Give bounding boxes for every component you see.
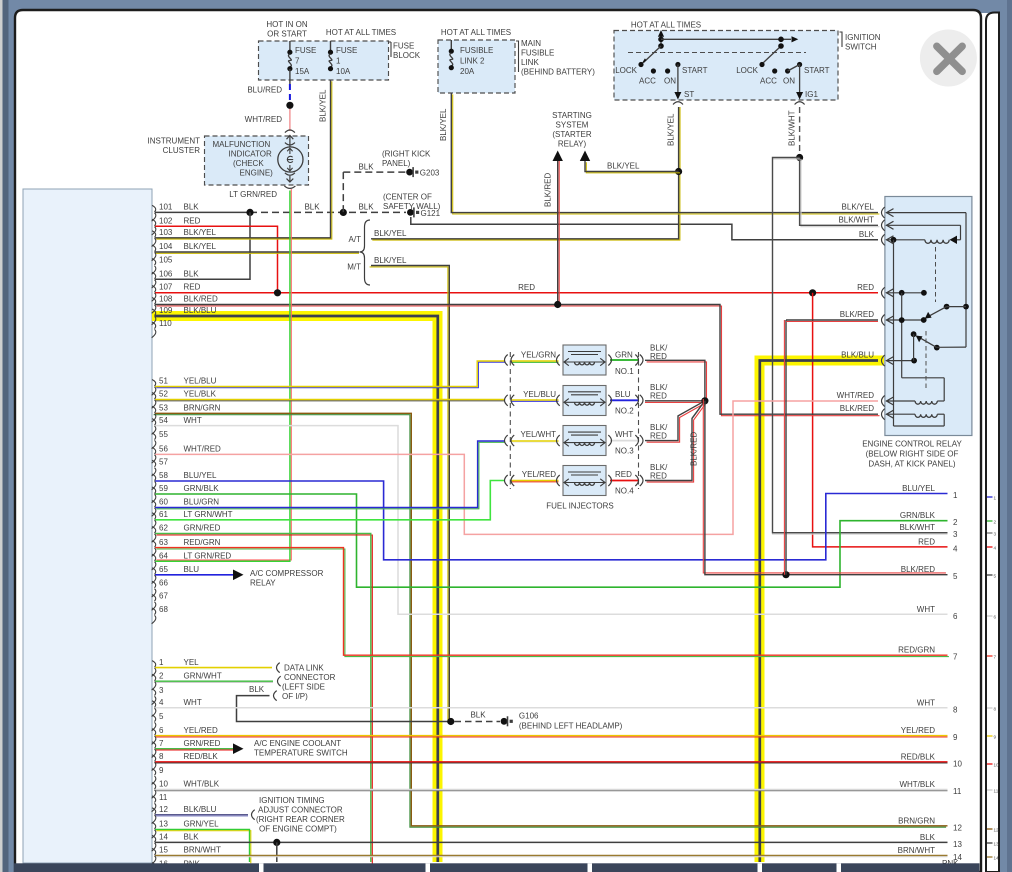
yellow highlight over BLK/BLU wire row 109: [152, 316, 438, 862]
svg-text:62: 62: [159, 524, 168, 533]
svg-text:9: 9: [159, 766, 164, 775]
svg-text:4: 4: [953, 544, 958, 553]
svg-text:BLK: BLK: [184, 203, 200, 212]
svg-text:(CENTER OF: (CENTER OF: [383, 193, 432, 202]
svg-text:BLU: BLU: [184, 565, 200, 574]
svg-text:12: 12: [994, 827, 1000, 832]
svg-text:NO.2: NO.2: [615, 406, 634, 415]
svg-text:LOCK: LOCK: [736, 66, 758, 75]
node junction BLK/WHT IG1: [796, 154, 803, 161]
svg-text:BLK: BLK: [358, 203, 374, 212]
bottom band gap at 836.5: [837, 863, 842, 872]
bottom band gap at 757.5: [758, 863, 763, 872]
svg-text:STARTING: STARTING: [552, 111, 592, 120]
fusible link 2 20A: [450, 40, 452, 50]
wire 64 LT GRN/RED stub: [155, 560, 290, 562]
svg-text:14: 14: [159, 833, 168, 842]
dashed connector line fuel injectors right: [638, 352, 640, 489]
node junction BLK dashed/G203 branch: [340, 209, 347, 216]
svg-text:(RIGHT REAR CORNER: (RIGHT REAR CORNER: [256, 815, 345, 824]
svg-text:BLK/YEL: BLK/YEL: [184, 228, 217, 237]
sliver wire stub 1: [987, 496, 993, 498]
svg-text:57: 57: [159, 458, 168, 467]
relay pin connector at y=212.6: [882, 207, 885, 218]
wire 109 BLK/BLU (highlighted): [155, 316, 438, 862]
svg-text:RED: RED: [615, 470, 632, 479]
svg-text:66: 66: [159, 579, 168, 588]
svg-text:IGNITION TIMING: IGNITION TIMING: [259, 796, 325, 805]
pin 5 connector: [152, 715, 156, 722]
relay pin connector at y=225.3: [882, 220, 885, 231]
svg-text:(BEHIND BATTERY): (BEHIND BATTERY): [521, 68, 595, 77]
brace A/T-M/T: [360, 220, 371, 285]
svg-text:2: 2: [159, 671, 164, 680]
svg-text:59: 59: [159, 484, 168, 493]
sliver wire stub 8: [987, 707, 993, 709]
svg-text:PANEL): PANEL): [382, 159, 411, 168]
wire 65 BLU to A/C compressor relay: [155, 574, 233, 576]
sliver wire stub 4: [987, 546, 993, 548]
svg-text:BLK/RED: BLK/RED: [840, 310, 874, 319]
svg-text:START: START: [804, 66, 830, 75]
svg-text:A/C ENGINE COOLANT: A/C ENGINE COOLANT: [254, 739, 341, 748]
svg-text:ON: ON: [664, 77, 676, 86]
sliver wire stub 9: [987, 735, 993, 737]
svg-text:BLK/YEL: BLK/YEL: [374, 229, 407, 238]
wire 106 BLK: [155, 212, 250, 279]
svg-text:8: 8: [159, 752, 164, 761]
svg-text:BLK/RED: BLK/RED: [840, 404, 874, 413]
injector no.2 connectors: [505, 395, 508, 406]
svg-text:RED/BLK: RED/BLK: [901, 752, 936, 761]
pin 2 connector: [152, 674, 156, 681]
svg-text:LINK 2: LINK 2: [460, 57, 485, 66]
svg-text:RED: RED: [650, 472, 667, 481]
fuse block box: [259, 41, 389, 80]
node junction 107/RED to pin 4: [809, 289, 816, 296]
pin 13 connector: [152, 822, 156, 829]
pin 10 connector: [152, 783, 156, 790]
sliver wire stub 12: [987, 828, 993, 830]
relay pin RED internal: [886, 292, 924, 294]
svg-text:RED: RED: [650, 352, 667, 361]
pin 104 connector: [152, 245, 156, 252]
sliver wire stub 11: [987, 789, 993, 791]
fuel injector no.4 box: [563, 466, 606, 496]
wire 10 WHT/BLK to row 11: [155, 790, 948, 792]
ignition switch IG1 output: [799, 65, 801, 95]
svg-text:5: 5: [159, 712, 164, 721]
svg-text:1: 1: [159, 658, 164, 667]
svg-text:G106: G106: [519, 712, 539, 721]
wire BLU/RED dashed from fuse 7: [289, 84, 291, 102]
wire 107 RED to relay: [155, 292, 878, 294]
pin 58 connector: [152, 474, 156, 481]
svg-text:BLU: BLU: [615, 390, 631, 399]
svg-text:NO.1: NO.1: [615, 367, 634, 376]
svg-text:A/T: A/T: [349, 235, 362, 244]
wire WHT injector no.3 output: [610, 440, 639, 442]
svg-text:13: 13: [159, 820, 168, 829]
svg-text:61: 61: [159, 510, 168, 519]
pin 9 connector: [152, 769, 156, 776]
wire YEL feed injector no.4: [512, 481, 559, 483]
svg-text:10: 10: [994, 762, 1000, 767]
svg-text:ON: ON: [783, 77, 795, 86]
wire 101 BLK dashed to G121: [250, 211, 406, 213]
svg-text:RELAY): RELAY): [558, 140, 587, 149]
node junction BLK/RED relay branch: [782, 571, 789, 578]
svg-text:BLK: BLK: [184, 270, 200, 279]
sliver wire stub 5: [987, 574, 993, 576]
pin 103 connector: [152, 231, 156, 238]
pin 108 connector: [152, 298, 156, 305]
pin 4 connector: [152, 701, 156, 708]
wire BLK/RED injector no.4: [647, 402, 707, 482]
wire BLK/RED injector no.3: [647, 402, 707, 442]
svg-text:FUSE: FUSE: [336, 46, 357, 55]
relay linkage dashed 2: [925, 331, 927, 389]
wire 101 BLK solid segment: [155, 211, 250, 213]
svg-text:4: 4: [159, 698, 164, 707]
svg-text:RED: RED: [184, 283, 201, 292]
svg-text:RED/BLK: RED/BLK: [184, 752, 219, 761]
connector at IG1: [795, 102, 805, 105]
svg-text:(BEHIND LEFT HEADLAMP): (BEHIND LEFT HEADLAMP): [519, 722, 623, 731]
svg-text:RED: RED: [518, 283, 535, 292]
svg-text:8: 8: [953, 705, 958, 714]
malfunction indicator box (instrument cluster): [205, 136, 309, 185]
svg-text:11: 11: [159, 793, 168, 802]
ignition switch left pole arm: [644, 46, 662, 63]
pin 12 connector: [152, 808, 156, 815]
pin 66 connector: [152, 581, 156, 588]
wire 54 WHT to row 6: [155, 426, 948, 615]
svg-text:51: 51: [159, 377, 168, 386]
fusible link box: [438, 40, 515, 93]
svg-text:WHT/RED: WHT/RED: [245, 115, 283, 124]
svg-text:RED: RED: [184, 217, 201, 226]
wire 63 RED/GRN to row 7: [156, 549, 949, 657]
pin 60 connector: [152, 501, 156, 508]
svg-text:SYSTEM: SYSTEM: [556, 121, 589, 130]
svg-text:YEL/RED: YEL/RED: [184, 726, 218, 735]
wire YEL feed injector no.1: [512, 361, 559, 363]
svg-text:BLK/WHT: BLK/WHT: [788, 110, 797, 146]
svg-text:BLK: BLK: [304, 203, 320, 212]
ignition switch right pole arm: [764, 46, 782, 63]
wire YEL feed injector no.2: [512, 400, 559, 402]
fuel injector no.2 box: [563, 386, 606, 416]
wire 4 WHT to row 8: [155, 707, 948, 709]
svg-text:BLOCK: BLOCK: [393, 51, 421, 60]
wire 56 WHT/RED to relay: [155, 401, 878, 534]
svg-text:105: 105: [159, 256, 173, 265]
svg-text:103: 103: [159, 228, 173, 237]
wire BLK dashed vertical to G203: [342, 172, 344, 212]
wire 8 RED/BLK to row 10: [155, 762, 948, 764]
svg-text:RELAY: RELAY: [250, 579, 276, 588]
wire YEL feed injector no.3: [512, 441, 559, 443]
svg-text:INDICATOR: INDICATOR: [229, 150, 272, 159]
svg-text:7: 7: [953, 653, 958, 662]
ignition switch left contacts: [638, 62, 643, 67]
pin 65 connector: [152, 568, 156, 575]
wire BLK/WHT to relay: [801, 159, 879, 227]
wire BLK/WHT from ignition switch IG1 dashed: [799, 107, 801, 158]
ignition switch right contact arm ON-START: [788, 65, 800, 72]
svg-text:52: 52: [159, 390, 168, 399]
svg-text:8: 8: [994, 706, 997, 711]
node junction 108/starter BLK/RED: [554, 301, 561, 308]
svg-text:CLUSTER: CLUSTER: [163, 146, 201, 155]
svg-text:11: 11: [953, 787, 962, 796]
svg-text:BLK/YEL: BLK/YEL: [374, 256, 407, 265]
pin 56 connector: [152, 447, 156, 454]
sliver wire stub 6: [987, 615, 993, 617]
ground G203: [406, 169, 413, 176]
wire 108 BLK/RED: [157, 306, 880, 416]
pin 109 connector: [152, 309, 156, 316]
svg-text:GRN/RED: GRN/RED: [184, 524, 221, 533]
svg-text:2: 2: [994, 519, 997, 524]
svg-text:10: 10: [953, 759, 962, 768]
svg-text:TEMPERATURE SWITCH: TEMPERATURE SWITCH: [254, 749, 348, 758]
wire WHT/RED from fuse 7 to indicator: [289, 107, 291, 131]
relay pin connector at y=292.8: [882, 287, 885, 298]
svg-text:OF I/P): OF I/P): [282, 692, 308, 701]
bracket ignition switch label: [840, 32, 843, 47]
bottom band gap at 259: [259, 863, 264, 872]
wire BLK stub below row 14: [276, 842, 278, 862]
wire BLK/RED bus to row 5: [703, 399, 946, 573]
svg-text:BLK/RED: BLK/RED: [184, 295, 218, 304]
relay pin connector at y=401: [882, 396, 885, 407]
pin 106 connector: [152, 272, 156, 279]
svg-text:NO.4: NO.4: [615, 487, 634, 496]
svg-text:FUSIBLE: FUSIBLE: [521, 49, 554, 58]
sliver wire stub 13: [987, 842, 993, 844]
svg-text:110: 110: [159, 319, 172, 328]
svg-text:63: 63: [159, 538, 168, 547]
pin 6 connector: [152, 729, 156, 736]
bottom band: [14, 863, 980, 872]
wire BLK data link to G106: [237, 696, 445, 722]
svg-text:BRN/GRN: BRN/GRN: [184, 404, 221, 413]
pin 102 connector: [152, 219, 156, 226]
wire 102 RED: [155, 226, 278, 292]
pin 53 connector: [152, 406, 156, 413]
svg-text:14: 14: [994, 855, 1000, 860]
svg-text:BLK: BLK: [859, 230, 875, 239]
wire RED injector no.4 output: [610, 480, 639, 482]
svg-text:55: 55: [159, 430, 168, 439]
svg-text:ENGINE): ENGINE): [240, 169, 274, 178]
svg-text:IG1: IG1: [805, 90, 818, 99]
svg-text:65: 65: [159, 565, 168, 574]
svg-text:BLK/YEL: BLK/YEL: [319, 89, 328, 122]
wire BLK/RED from starting system to 108: [558, 161, 560, 305]
wire 53 BRN/GRN: [154, 415, 947, 828]
svg-text:GRN/BLK: GRN/BLK: [900, 511, 936, 520]
svg-text:M/T: M/T: [347, 263, 361, 272]
sliver wire stub 10: [987, 763, 993, 765]
pin 59 connector: [152, 487, 156, 494]
wire BLK/YEL from ignition switch ST: [679, 107, 681, 172]
svg-text:1: 1: [953, 491, 958, 500]
pin 64 connector: [152, 554, 156, 561]
node junction 101/106: [246, 209, 253, 216]
svg-text:15: 15: [159, 846, 168, 855]
svg-text:RED/GRN: RED/GRN: [898, 646, 935, 655]
svg-text:5: 5: [994, 573, 997, 578]
connector ignition timing adjust: [252, 810, 255, 820]
wire 58 BLU/YEL to row 1: [155, 481, 948, 560]
connector data link BLK: [274, 691, 277, 701]
svg-text:YEL: YEL: [184, 658, 200, 667]
svg-text:CONNECTOR: CONNECTOR: [284, 673, 336, 682]
wire 61 LT GRN/WHT: [155, 481, 504, 520]
relay linkage dashed 1: [935, 247, 937, 302]
svg-text:3: 3: [994, 531, 997, 536]
svg-text:BLK/YEL: BLK/YEL: [607, 162, 640, 171]
svg-text:107: 107: [159, 283, 173, 292]
connector data link 2: [278, 676, 281, 686]
svg-text:4: 4: [994, 545, 997, 550]
svg-text:BLK: BLK: [249, 685, 265, 694]
relay coil BLK/RED K3: [886, 413, 915, 415]
injector no.1 connectors: [505, 355, 508, 366]
engine control relay box U1: [885, 197, 972, 436]
connector data link 1: [277, 663, 280, 673]
relay pin connector at y=360.6: [882, 355, 885, 366]
svg-text:BLK: BLK: [470, 711, 486, 720]
white channel between pages: [979, 13, 1000, 872]
wire BLK/WHT branch to row 3: [773, 159, 948, 534]
svg-text:SAFETY WALL): SAFETY WALL): [383, 202, 441, 211]
svg-text:10: 10: [159, 780, 168, 789]
arrow to A/C compressor relay: [233, 570, 244, 581]
svg-text:BLU/GRN: BLU/GRN: [184, 498, 220, 507]
svg-text:HOT IN ON: HOT IN ON: [266, 20, 307, 29]
svg-text:HOT AT ALL TIMES: HOT AT ALL TIMES: [631, 21, 701, 30]
svg-text:WHT: WHT: [615, 430, 633, 439]
svg-text:BLK/YEL: BLK/YEL: [439, 108, 448, 141]
svg-text:6: 6: [994, 614, 997, 619]
svg-text:START: START: [682, 66, 708, 75]
PCM connector box (left): [23, 189, 152, 863]
svg-text:1: 1: [336, 57, 341, 66]
sliver wire stub 7: [987, 655, 993, 657]
relay pin BLK/WHT internal: [886, 224, 961, 226]
fuel injector no.1 box: [563, 345, 606, 375]
pin 7 connector: [152, 742, 156, 749]
svg-text:WHT: WHT: [184, 698, 202, 707]
relay pin connector at y=320: [882, 315, 885, 326]
svg-text:2: 2: [953, 518, 958, 527]
svg-text:FUSIBLE: FUSIBLE: [460, 46, 493, 55]
pin 14 connector: [152, 835, 156, 842]
wire 52 YEL/BLK: [155, 400, 504, 402]
svg-text:SWITCH: SWITCH: [845, 43, 877, 52]
svg-text:53: 53: [159, 404, 168, 413]
svg-text:13: 13: [953, 840, 962, 849]
relay pin BLK/YEL internal: [886, 212, 966, 214]
pin 11 connector: [152, 796, 156, 803]
svg-text:WHT/BLK: WHT/BLK: [184, 780, 220, 789]
svg-text:FUSE: FUSE: [295, 46, 316, 55]
svg-text:7: 7: [295, 57, 300, 66]
svg-text:FUEL INJECTORS: FUEL INJECTORS: [546, 502, 614, 511]
bracket main fusible link label: [516, 41, 519, 72]
svg-text:HOT AT ALL TIMES: HOT AT ALL TIMES: [326, 28, 396, 37]
svg-text:7: 7: [159, 739, 164, 748]
relay pin connector at y=414.2: [882, 409, 885, 420]
fuse 1 10A: [330, 41, 332, 51]
node junction BLK/YEL ST/branch: [675, 168, 682, 175]
svg-text:WHT/RED: WHT/RED: [184, 445, 222, 454]
svg-text:GRN/BLK: GRN/BLK: [184, 484, 220, 493]
bottom band gap at 587.5: [588, 863, 593, 872]
svg-text:LT GRN/RED: LT GRN/RED: [184, 552, 232, 561]
svg-text:BLU/YEL: BLU/YEL: [902, 484, 935, 493]
yellow highlight over BLK/BLU wire at relay: [760, 361, 885, 863]
wire M/T BLK/YEL: [370, 267, 448, 723]
svg-text:FUSE: FUSE: [393, 42, 414, 51]
svg-text:12: 12: [953, 823, 962, 832]
svg-text:5: 5: [953, 572, 958, 581]
svg-text:13: 13: [994, 841, 1000, 846]
svg-text:(RIGHT KICK: (RIGHT KICK: [382, 150, 431, 159]
svg-text:GRN: GRN: [615, 351, 633, 360]
svg-text:68: 68: [159, 605, 168, 614]
svg-text:1: 1: [994, 495, 997, 500]
svg-text:YEL/BLK: YEL/BLK: [184, 390, 217, 399]
svg-text:60: 60: [159, 498, 168, 507]
svg-text:106: 106: [159, 270, 173, 279]
svg-text:BLK/BLU: BLK/BLU: [184, 306, 217, 315]
wire 103 BLK/YEL from fuse 1: [156, 81, 331, 239]
svg-text:YEL/WHT: YEL/WHT: [520, 430, 556, 439]
pin 52 connector: [152, 393, 156, 400]
wire A/T BLK/YEL: [372, 173, 680, 240]
arrow to A/C engine coolant temperature switch: [233, 743, 244, 754]
wire 13 GRN/YEL: [156, 831, 251, 864]
svg-text:(LEFT SIDE: (LEFT SIDE: [282, 683, 325, 692]
wire BLK/BLU to relay (highlighted): [760, 361, 878, 863]
pin 67 connector: [152, 595, 156, 602]
wire BLU injector no.2 output: [610, 399, 639, 401]
relay lower switch contact: [911, 331, 917, 337]
sliver wire stub 2: [987, 520, 993, 522]
svg-text:BLK/RED: BLK/RED: [544, 173, 553, 207]
sliver wire stub 3: [987, 532, 993, 534]
svg-text:BLK/RED: BLK/RED: [690, 432, 699, 466]
svg-text:BLK/YEL: BLK/YEL: [184, 242, 217, 251]
svg-text:20A: 20A: [460, 67, 475, 76]
relay pin BLK/BLU internal: [886, 360, 914, 362]
svg-text:9: 9: [994, 734, 997, 739]
bottom band gap at 425.5: [426, 863, 431, 872]
ignition switch ST output: [677, 65, 679, 95]
svg-text:58: 58: [159, 471, 168, 480]
pin 68 connector: [152, 608, 156, 615]
svg-text:101: 101: [159, 203, 173, 212]
svg-text:NO.3: NO.3: [615, 447, 634, 456]
svg-text:GRN/WHT: GRN/WHT: [184, 671, 222, 680]
svg-text:7: 7: [994, 654, 997, 659]
fuse 7 15A: [289, 41, 291, 51]
